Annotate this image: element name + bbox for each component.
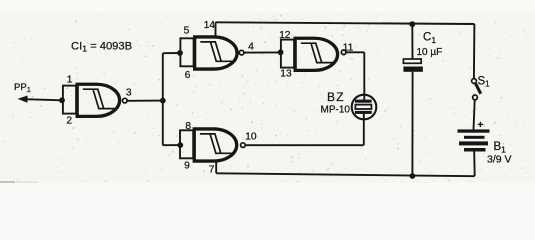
svg-text:10: 10 (245, 131, 257, 142)
svg-text:5: 5 (184, 26, 190, 37)
svg-text:7: 7 (209, 165, 215, 176)
svg-text:13: 13 (280, 69, 292, 80)
svg-text:4: 4 (248, 42, 254, 53)
svg-text:BZ: BZ (327, 90, 345, 104)
svg-text:14: 14 (204, 20, 216, 31)
svg-text:3/9 V: 3/9 V (487, 154, 512, 166)
svg-text:6: 6 (185, 70, 191, 81)
svg-text:MP-10: MP-10 (321, 105, 351, 116)
svg-text:+: + (478, 120, 484, 131)
svg-text:8: 8 (185, 121, 191, 132)
svg-text:11: 11 (343, 43, 354, 54)
svg-text:12: 12 (279, 30, 291, 41)
svg-text:3: 3 (126, 88, 132, 99)
svg-text:2: 2 (66, 116, 72, 127)
svg-text:10 µF: 10 µF (417, 47, 443, 58)
svg-text:9: 9 (184, 160, 190, 171)
svg-text:CI1 = 4093B: CI1 = 4093B (71, 40, 132, 53)
svg-text:1: 1 (67, 75, 73, 86)
